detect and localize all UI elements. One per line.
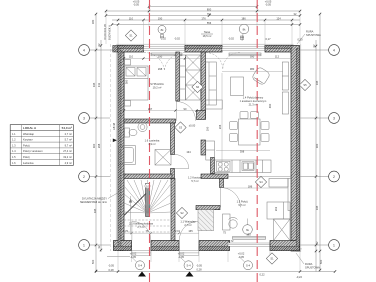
wardrobe corridor (186, 55, 201, 100)
svg-text:SPUSTOWA: SPUSTOWA (305, 266, 320, 270)
bathroom door arc (175, 155, 189, 169)
washing machine (155, 150, 171, 166)
wire top dim line row1 (106, 7, 300, 25)
room label 1.4 (240, 96, 267, 107)
grid line 2 left (90, 176, 111, 178)
top window 2 (222, 47, 265, 50)
stairwell right wall (171, 179, 175, 241)
interior wall A bathroom north (124, 119, 176, 123)
svg-text:9,7 m²: 9,7 m² (65, 143, 72, 147)
diamond S1 bottom (266, 253, 277, 264)
svg-text:3: 3 (333, 117, 335, 121)
stairs winder treads (124, 180, 171, 213)
svg-text:RURA: RURA (306, 30, 314, 34)
dining table (239, 119, 261, 145)
svg-text:S-4: S-4 (138, 264, 143, 268)
svg-text:300: 300 (92, 143, 96, 148)
svg-text:0,22: 0,22 (259, 273, 265, 277)
room label 1.5 (150, 82, 164, 90)
bubble 4 right (329, 45, 340, 56)
red section line 1 (149, 0, 151, 282)
entry step 2 (179, 251, 199, 256)
grid line 4 left (90, 49, 144, 51)
interior wall D2 (171, 169, 175, 179)
svg-text:Wiatrołap: Wiatrołap (23, 132, 35, 136)
room label 1.6 (145, 139, 160, 147)
section triangle 1 (138, 272, 146, 277)
svg-text:4: 4 (83, 49, 85, 53)
svg-text:1.4 Pokój dzienny: 1.4 Pokój dzienny (243, 96, 264, 100)
svg-text:+0,02: +0,02 (130, 252, 137, 256)
section triangle 2 (186, 272, 194, 277)
room 1.3 chair (229, 217, 238, 228)
room 1.3 shower box (274, 219, 291, 241)
room 1.3 bed (267, 202, 290, 219)
svg-text:186: 186 (241, 16, 246, 20)
svg-text:1.5: 1.5 (12, 155, 16, 159)
svg-text:2,01: 2,01 (175, 229, 181, 233)
chair 6 (251, 112, 259, 119)
stairs lower treads (124, 220, 171, 232)
stair spine wall (146, 184, 150, 217)
svg-text:±0,00: ±0,00 (189, 124, 196, 128)
svg-text:0,28: 0,28 (196, 268, 202, 272)
bubble 1 right (329, 240, 340, 251)
svg-text:124: 124 (276, 16, 281, 20)
svg-text:1.2: 1.2 (12, 138, 16, 142)
svg-text:S2: S2 (180, 211, 184, 215)
radiator above bottom window (233, 237, 266, 240)
stairs circle marker (145, 183, 150, 188)
kitchen counter (215, 160, 272, 173)
svg-text:2: 2 (83, 175, 85, 179)
svg-text:AB 48: AB 48 (112, 122, 116, 130)
svg-text:1.1: 1.1 (12, 132, 16, 136)
left exterior wall (116, 45, 124, 251)
bubble 3 right (329, 113, 340, 124)
top dim texts (129, 0, 297, 25)
svg-text:-0,05: -0,05 (133, 3, 139, 7)
svg-text:3: 3 (83, 117, 85, 121)
diamond S6 wardrobe (192, 81, 203, 92)
svg-text:267: 267 (148, 107, 153, 111)
chair 5 (240, 112, 248, 119)
top wall segment 2 (185, 46, 222, 53)
interior dims (125, 55, 280, 212)
circle 8k small top-left (158, 26, 166, 38)
chair 3 (261, 122, 269, 130)
level texts above circles (130, 252, 245, 260)
coffee table (231, 77, 244, 96)
sofa corner module (206, 100, 223, 109)
level marks top (160, 37, 303, 42)
bedroom closet shelf column (180, 55, 186, 100)
svg-text:SEGMENTAMI ok. 4cm: SEGMENTAMI ok. 4cm (80, 200, 107, 204)
svg-text:-0,05: -0,05 (238, 255, 244, 259)
svg-text:190: 190 (246, 233, 251, 237)
svg-text:4: 4 (333, 49, 335, 53)
svg-text:4,9 m²: 4,9 m² (148, 142, 155, 146)
room label 1.3 (237, 200, 248, 208)
room label 1.2 (188, 176, 203, 184)
grid line 3 left (90, 117, 111, 119)
svg-text:Pokój z aneksem: Pokój z aneksem (23, 149, 43, 153)
bathtub (119, 146, 136, 165)
svg-text:S5: S5 (303, 83, 307, 87)
svg-text:2,70: 2,70 (123, 229, 129, 233)
svg-text:27,4 m²: 27,4 m² (63, 149, 72, 153)
top wall segment 1 (118, 46, 144, 53)
radiator under window 2 (229, 53, 261, 56)
chair 2 (230, 134, 238, 142)
exterior wall outer insulation layers (114, 46, 300, 252)
svg-text:SPUSTOWA: SPUSTOWA (306, 33, 321, 37)
bottom circle S4 a (132, 258, 145, 270)
svg-text:0,17: 0,17 (265, 37, 271, 41)
taras label (201, 30, 213, 38)
svg-text:S-4: S-4 (246, 264, 251, 268)
svg-text:490: 490 (268, 103, 272, 108)
svg-text:556: 556 (207, 21, 212, 25)
svg-text:-0,02: -0,02 (228, 37, 234, 41)
svg-text:345: 345 (92, 82, 96, 87)
room 1.3 desk (223, 214, 231, 230)
svg-text:298: 298 (97, 143, 101, 148)
entry door arc stairs (132, 221, 151, 240)
kitchen counter vertical (206, 141, 215, 160)
room 1.3 cabinet (269, 179, 288, 188)
svg-text:-0,02: -0,02 (174, 37, 180, 41)
top window 1 (144, 47, 186, 50)
top extension lines (106, 4, 300, 46)
grid line 1 left (90, 244, 111, 246)
sink kitchen (242, 162, 254, 171)
svg-text:110: 110 (129, 55, 134, 59)
room 1.3 north line (228, 176, 291, 178)
armchair (251, 66, 270, 85)
svg-text:S6: S6 (196, 85, 200, 89)
porch ramp (198, 210, 214, 231)
interior wall B jamb pier (197, 111, 206, 120)
svg-text:-0,22: -0,22 (296, 275, 302, 279)
svg-text:298: 298 (158, 67, 163, 71)
svg-text:345: 345 (93, 208, 97, 213)
svg-text:1.6: 1.6 (12, 161, 16, 165)
svg-text:1.6 Łazienka: 1.6 Łazienka (145, 139, 160, 143)
top-left corner dylatacja block (113, 46, 118, 53)
svg-text:500: 500 (91, 259, 95, 264)
left dim chain (96, 14, 101, 272)
svg-text:19,2 m²: 19,2 m² (63, 155, 72, 159)
svg-text:5,7 m²: 5,7 m² (65, 138, 72, 142)
bottom dim chain (96, 257, 335, 272)
door level texts bottom wall (123, 229, 251, 243)
exterior finish line right (300, 44, 302, 252)
svg-text:1: 1 (83, 244, 85, 248)
svg-text:0,28: 0,28 (108, 268, 114, 272)
bottom window (228, 243, 270, 246)
svg-text:206: 206 (218, 124, 222, 129)
bottom circle S4 c (240, 258, 253, 270)
svg-text:100: 100 (206, 126, 210, 131)
svg-text:2: 2 (333, 175, 335, 179)
bottom wall segment 2 (151, 241, 179, 251)
svg-text:LOKAL A: LOKAL A (23, 126, 37, 130)
svg-text:176: 176 (201, 16, 206, 20)
svg-text:+0,02: +0,02 (238, 252, 245, 256)
svg-text:21,3 m²: 21,3 m² (249, 103, 258, 107)
top wall segment 3 (265, 46, 292, 53)
svg-text:180: 180 (91, 19, 95, 24)
svg-text:500: 500 (319, 259, 323, 264)
bedroom door arc (176, 102, 195, 121)
svg-text:S1: S1 (270, 257, 274, 261)
svg-text:390: 390 (250, 55, 255, 59)
right dim chain (316, 14, 320, 272)
dylatacja dashed boundary line (109, 44, 111, 251)
svg-text:DYLATACJA MIĘDZY: DYLATACJA MIĘDZY (82, 197, 107, 201)
svg-text:0,20: 0,20 (297, 38, 303, 42)
svg-text:-0,05: -0,05 (196, 264, 202, 268)
svg-text:S-4: S-4 (186, 264, 191, 268)
svg-text:1.4: 1.4 (12, 149, 16, 153)
svg-text:190: 190 (158, 55, 163, 59)
svg-text:-0,02: -0,02 (160, 37, 166, 41)
svg-text:+0,02: +0,02 (178, 252, 185, 256)
bedroom east wall (176, 52, 180, 101)
svg-text:1: 1 (333, 244, 335, 248)
svg-text:19,2 m²: 19,2 m² (153, 86, 162, 90)
svg-text:-0,72: -0,72 (228, 239, 234, 243)
grid lines right (300, 49, 329, 51)
top dim ticks (105, 5, 301, 25)
svg-text:-0,05: -0,05 (108, 264, 114, 268)
svg-text:9,7 m²: 9,7 m² (238, 203, 245, 207)
svg-text:112: 112 (275, 55, 280, 59)
svg-text:398: 398 (240, 150, 245, 154)
radiator right (288, 179, 291, 211)
bathroom toilet (125, 128, 138, 137)
nightstand bottom (125, 101, 131, 107)
svg-text:360: 360 (125, 79, 129, 84)
stairs arrow (129, 196, 132, 234)
bottom wall segment 4 (270, 241, 300, 251)
svg-text:Pokój: Pokój (23, 143, 30, 147)
interior wall E2 (201, 174, 228, 179)
svg-text:S4: S4 (259, 180, 263, 184)
bubble 1 left (79, 240, 90, 251)
diamond S3 corridor (175, 122, 186, 133)
svg-text:54,0 m²: 54,0 m² (62, 126, 72, 130)
diamond S2 hall (176, 207, 187, 218)
svg-text:794: 794 (207, 12, 212, 16)
interior wall B corridor/living (201, 52, 206, 119)
bottom wall segment 1 (114, 241, 132, 251)
chair 1 (230, 122, 238, 130)
circle 8k top (239, 24, 249, 41)
radiator under window 1 (151, 53, 182, 56)
interior wall kitchen pier (211, 158, 215, 174)
entry step 1 (132, 251, 151, 256)
nightstand top (125, 60, 131, 66)
svg-text:110: 110 (129, 16, 134, 20)
sofa (206, 62, 217, 105)
svg-text:311: 311 (97, 82, 101, 87)
svg-text:Pokój: Pokój (23, 155, 30, 159)
svg-text:-0,05: -0,05 (265, 3, 271, 7)
room label 2.1 stairs (129, 222, 153, 230)
svg-text:-0,05: -0,05 (130, 255, 136, 259)
svg-text:S3: S3 (179, 126, 183, 130)
svg-text:2,7 m²: 2,7 m² (184, 223, 191, 227)
svg-text:190: 190 (158, 16, 163, 20)
svg-text:165: 165 (188, 229, 193, 233)
stairs handrail diagonal (124, 194, 146, 216)
wall type marker arrow (113, 139, 117, 143)
bubble 4 left (79, 45, 90, 56)
svg-text:186: 186 (248, 185, 253, 189)
room 1.3 door arc (221, 188, 241, 208)
right exterior wall (291, 46, 300, 252)
svg-text:5,7 m²: 5,7 m² (191, 179, 198, 183)
svg-text:0,17: 0,17 (296, 248, 302, 252)
corner level labels (296, 248, 302, 280)
svg-text:2,7 m²: 2,7 m² (65, 132, 72, 136)
bubble 2 left (79, 171, 90, 182)
stove (217, 161, 231, 171)
living double door dashed arcs (206, 53, 240, 70)
svg-text:RURA: RURA (305, 262, 313, 266)
svg-text:1.1 Wiatrołap: 1.1 Wiatrołap (180, 220, 196, 224)
svg-text:Łazienka: Łazienka (23, 161, 34, 165)
bottom wall segment 3 (199, 241, 230, 251)
svg-text:202: 202 (274, 206, 278, 211)
svg-text:z aneksem kuchennym: z aneksem kuchennym (240, 99, 267, 103)
svg-text:1.3: 1.3 (12, 143, 16, 147)
circle 6k plan bottom (243, 219, 253, 235)
svg-text:±0,00=101,35: ±0,00=101,35 (103, 24, 107, 40)
interior wall E stairs north (124, 174, 172, 179)
svg-text:345: 345 (315, 80, 319, 85)
interior dim lines (124, 59, 291, 189)
rura spustowa bottom (296, 253, 320, 270)
diamond S5 right (299, 79, 310, 90)
svg-text:Taras: Taras (204, 30, 211, 34)
svg-text:300: 300 (315, 143, 319, 148)
exterior finish line top (116, 43, 293, 45)
dylatacja note (80, 193, 118, 204)
budynek note rotated (103, 24, 112, 40)
rura spustowa top (297, 30, 321, 45)
bottom circle S4 b (181, 258, 194, 270)
svg-text:345: 345 (315, 205, 319, 210)
bubble 2 right (329, 171, 340, 182)
svg-text:800: 800 (207, 7, 212, 11)
svg-text:Korytarz: Korytarz (23, 138, 33, 142)
svg-text:18,5 m²: 18,5 m² (203, 34, 212, 38)
window1 dashed swing arcs (144, 52, 185, 70)
svg-text:2.1 Klatka schodowa: 2.1 Klatka schodowa (129, 222, 153, 226)
svg-text:BUDYNEK A: BUDYNEK A (108, 25, 112, 40)
diamond S1 top (125, 30, 136, 41)
svg-text:380: 380 (250, 67, 255, 71)
bathroom sink (138, 122, 147, 131)
svg-text:1.3 Pokój: 1.3 Pokój (237, 200, 248, 204)
svg-text:134: 134 (186, 150, 191, 154)
bubble 3 left (79, 113, 90, 124)
red section line 2 (256, 0, 258, 282)
interior wall D bathroom east (171, 123, 175, 155)
svg-text:SYPIALNIA: SYPIALNIA (150, 82, 164, 86)
chair 4 (261, 134, 269, 142)
interior wall B2 pier (201, 140, 206, 155)
svg-text:4,9 m²: 4,9 m² (65, 161, 72, 165)
room label 1.1 (180, 220, 196, 228)
svg-text:S1: S1 (129, 34, 133, 38)
entry door arc wiatrolap (179, 221, 199, 240)
area table (10, 125, 73, 166)
tv cabinet (282, 62, 288, 114)
bed bedroom 1.5 (125, 66, 149, 100)
interior wall G (196, 206, 220, 210)
diamond S4 kitchen (255, 176, 266, 187)
svg-text:2,7 m²: 2,7 m² (137, 225, 144, 229)
svg-text:1.2 Korytarz: 1.2 Korytarz (188, 176, 203, 180)
svg-text:-0,05: -0,05 (178, 255, 184, 259)
interior wall F pier (220, 179, 224, 188)
